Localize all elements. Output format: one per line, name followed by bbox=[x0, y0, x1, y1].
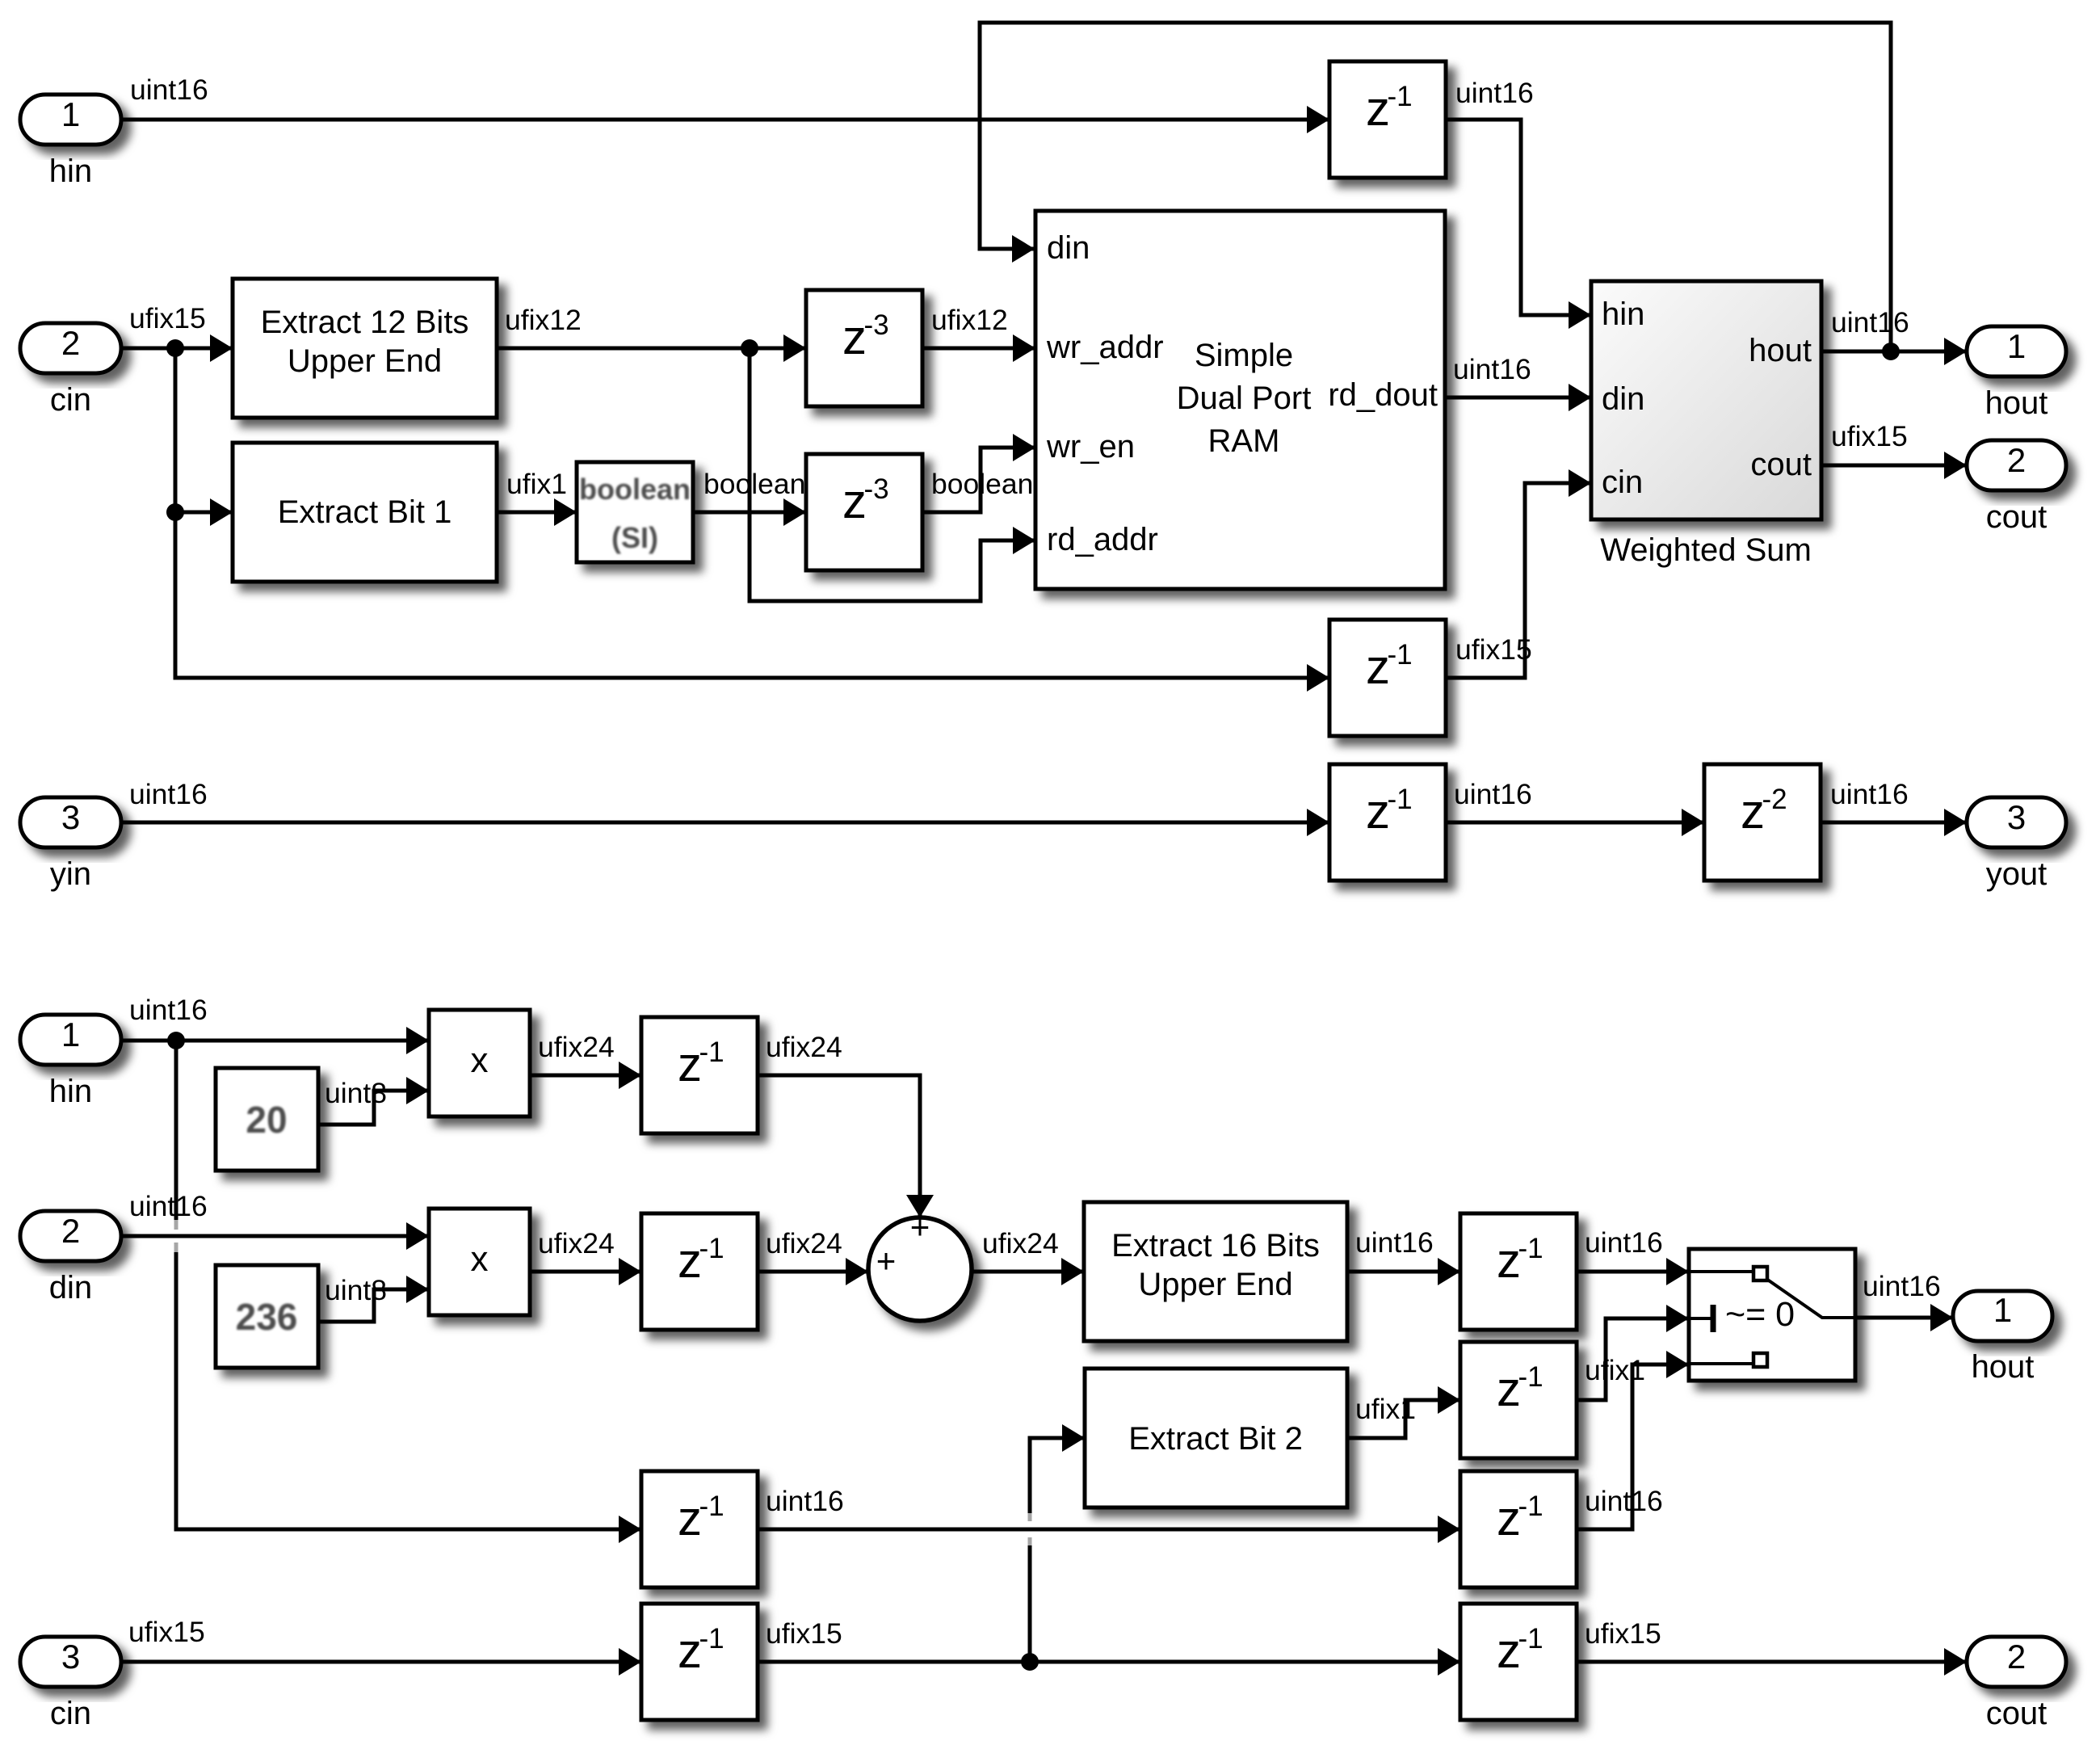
svg-text:+: + bbox=[910, 1208, 930, 1246]
svg-text:2: 2 bbox=[2007, 1638, 2026, 1676]
svg-text:ufix12: ufix12 bbox=[931, 304, 1008, 336]
svg-text:boolean: boolean bbox=[703, 468, 805, 500]
svg-text:Dual Port: Dual Port bbox=[1177, 381, 1312, 416]
svg-text:-1: -1 bbox=[1518, 1233, 1543, 1264]
svg-text:uint16: uint16 bbox=[1585, 1226, 1663, 1259]
svg-text:-1: -1 bbox=[699, 1491, 724, 1522]
svg-text:-1: -1 bbox=[1387, 784, 1412, 815]
svg-text:cin: cin bbox=[50, 382, 91, 418]
svg-text:uint8: uint8 bbox=[325, 1274, 387, 1306]
svg-text:3: 3 bbox=[61, 1638, 80, 1676]
svg-text:hin: hin bbox=[49, 153, 92, 189]
svg-text:2: 2 bbox=[61, 324, 80, 362]
svg-text:Extract 12 Bits: Extract 12 Bits bbox=[261, 305, 469, 340]
svg-text:hin: hin bbox=[1602, 296, 1644, 332]
svg-text:ufix24: ufix24 bbox=[538, 1031, 615, 1063]
svg-text:ufix24: ufix24 bbox=[766, 1227, 842, 1259]
svg-text:1: 1 bbox=[61, 95, 80, 133]
svg-text:ufix1: ufix1 bbox=[506, 468, 567, 500]
svg-text:ufix1: ufix1 bbox=[1585, 1354, 1645, 1386]
svg-text:cin: cin bbox=[50, 1696, 91, 1731]
svg-text:ufix24: ufix24 bbox=[766, 1031, 842, 1063]
svg-text:uint8: uint8 bbox=[325, 1077, 387, 1109]
svg-text:ufix1: ufix1 bbox=[1355, 1393, 1416, 1425]
svg-text:hout: hout bbox=[1972, 1349, 2035, 1385]
svg-text:boolean: boolean bbox=[931, 468, 1033, 500]
svg-text:ufix12: ufix12 bbox=[505, 304, 582, 336]
svg-text:+: + bbox=[876, 1242, 897, 1280]
svg-text:Upper End: Upper End bbox=[288, 343, 442, 379]
svg-text:2: 2 bbox=[61, 1212, 80, 1250]
svg-text:-1: -1 bbox=[1518, 1491, 1543, 1522]
svg-text:2: 2 bbox=[2007, 441, 2026, 479]
svg-text:uint16: uint16 bbox=[1831, 306, 1909, 338]
svg-text:rd_addr: rd_addr bbox=[1047, 522, 1158, 557]
svg-text:uint16: uint16 bbox=[1863, 1270, 1941, 1302]
svg-text:uint16: uint16 bbox=[129, 1190, 208, 1222]
svg-text:-1: -1 bbox=[699, 1233, 724, 1264]
svg-text:uint16: uint16 bbox=[1585, 1485, 1663, 1517]
svg-text:-1: -1 bbox=[699, 1623, 724, 1655]
svg-text:Extract 16 Bits: Extract 16 Bits bbox=[1111, 1228, 1320, 1264]
svg-text:uint16: uint16 bbox=[1454, 778, 1532, 810]
svg-text:ufix15: ufix15 bbox=[1831, 420, 1908, 452]
svg-text:Weighted Sum: Weighted Sum bbox=[1600, 532, 1812, 568]
svg-text:ufix15: ufix15 bbox=[1455, 633, 1532, 666]
svg-text:Upper End: Upper End bbox=[1138, 1267, 1292, 1302]
svg-text:-3: -3 bbox=[863, 309, 888, 341]
svg-text:din: din bbox=[1047, 230, 1090, 266]
svg-text:din: din bbox=[1602, 381, 1644, 417]
svg-text:yout: yout bbox=[1986, 856, 2047, 892]
svg-text:rd_dout: rd_dout bbox=[1328, 377, 1438, 413]
svg-text:Extract Bit 2: Extract Bit 2 bbox=[1128, 1421, 1303, 1457]
svg-text:din: din bbox=[49, 1270, 92, 1306]
svg-text:uint16: uint16 bbox=[129, 994, 208, 1026]
svg-text:ufix15: ufix15 bbox=[766, 1617, 842, 1650]
svg-text:-3: -3 bbox=[863, 473, 888, 505]
svg-text:cout: cout bbox=[1986, 499, 2047, 535]
svg-text:uint16: uint16 bbox=[1830, 778, 1909, 810]
svg-text:236: 236 bbox=[236, 1296, 298, 1338]
svg-text:uint16: uint16 bbox=[130, 74, 208, 106]
svg-text:Extract Bit 1: Extract Bit 1 bbox=[278, 494, 452, 530]
svg-text:-1: -1 bbox=[1518, 1361, 1543, 1393]
svg-text:1: 1 bbox=[61, 1015, 80, 1053]
svg-text:uint16: uint16 bbox=[1455, 77, 1534, 109]
svg-text:-1: -1 bbox=[1387, 81, 1412, 112]
svg-text:cout: cout bbox=[1986, 1696, 2047, 1731]
svg-text:3: 3 bbox=[2007, 798, 2026, 836]
svg-text:hin: hin bbox=[49, 1074, 92, 1109]
svg-text:uint16: uint16 bbox=[1355, 1226, 1434, 1259]
svg-text:1: 1 bbox=[1993, 1291, 2012, 1329]
svg-text:1: 1 bbox=[2007, 327, 2026, 365]
svg-text:x: x bbox=[471, 1239, 489, 1279]
svg-text:-1: -1 bbox=[699, 1036, 724, 1068]
svg-text:-1: -1 bbox=[1387, 639, 1412, 671]
svg-text:Simple: Simple bbox=[1195, 338, 1293, 373]
svg-text:20: 20 bbox=[246, 1099, 287, 1141]
svg-text:~= 0: ~= 0 bbox=[1725, 1295, 1795, 1334]
svg-text:cout: cout bbox=[1750, 447, 1812, 482]
svg-text:-2: -2 bbox=[1762, 784, 1787, 815]
svg-text:x: x bbox=[471, 1041, 489, 1080]
svg-text:uint16: uint16 bbox=[766, 1485, 844, 1517]
svg-text:hout: hout bbox=[1749, 333, 1812, 368]
svg-text:ufix15: ufix15 bbox=[128, 1616, 205, 1648]
svg-text:RAM: RAM bbox=[1208, 423, 1280, 459]
svg-text:wr_en: wr_en bbox=[1046, 429, 1135, 465]
svg-text:uint16: uint16 bbox=[1453, 353, 1531, 385]
svg-text:uint16: uint16 bbox=[129, 778, 208, 810]
svg-text:yin: yin bbox=[50, 856, 91, 892]
svg-text:ufix24: ufix24 bbox=[982, 1227, 1059, 1259]
svg-text:-1: -1 bbox=[1518, 1623, 1543, 1655]
svg-text:ufix24: ufix24 bbox=[538, 1227, 615, 1259]
svg-text:hout: hout bbox=[1985, 385, 2048, 421]
svg-text:boolean: boolean bbox=[579, 473, 691, 506]
svg-text:cin: cin bbox=[1602, 465, 1643, 500]
svg-text:ufix15: ufix15 bbox=[1585, 1617, 1661, 1650]
svg-text:3: 3 bbox=[61, 798, 80, 836]
svg-text:ufix15: ufix15 bbox=[129, 302, 206, 334]
svg-text:wr_addr: wr_addr bbox=[1046, 330, 1164, 365]
svg-text:(SI): (SI) bbox=[611, 521, 658, 554]
